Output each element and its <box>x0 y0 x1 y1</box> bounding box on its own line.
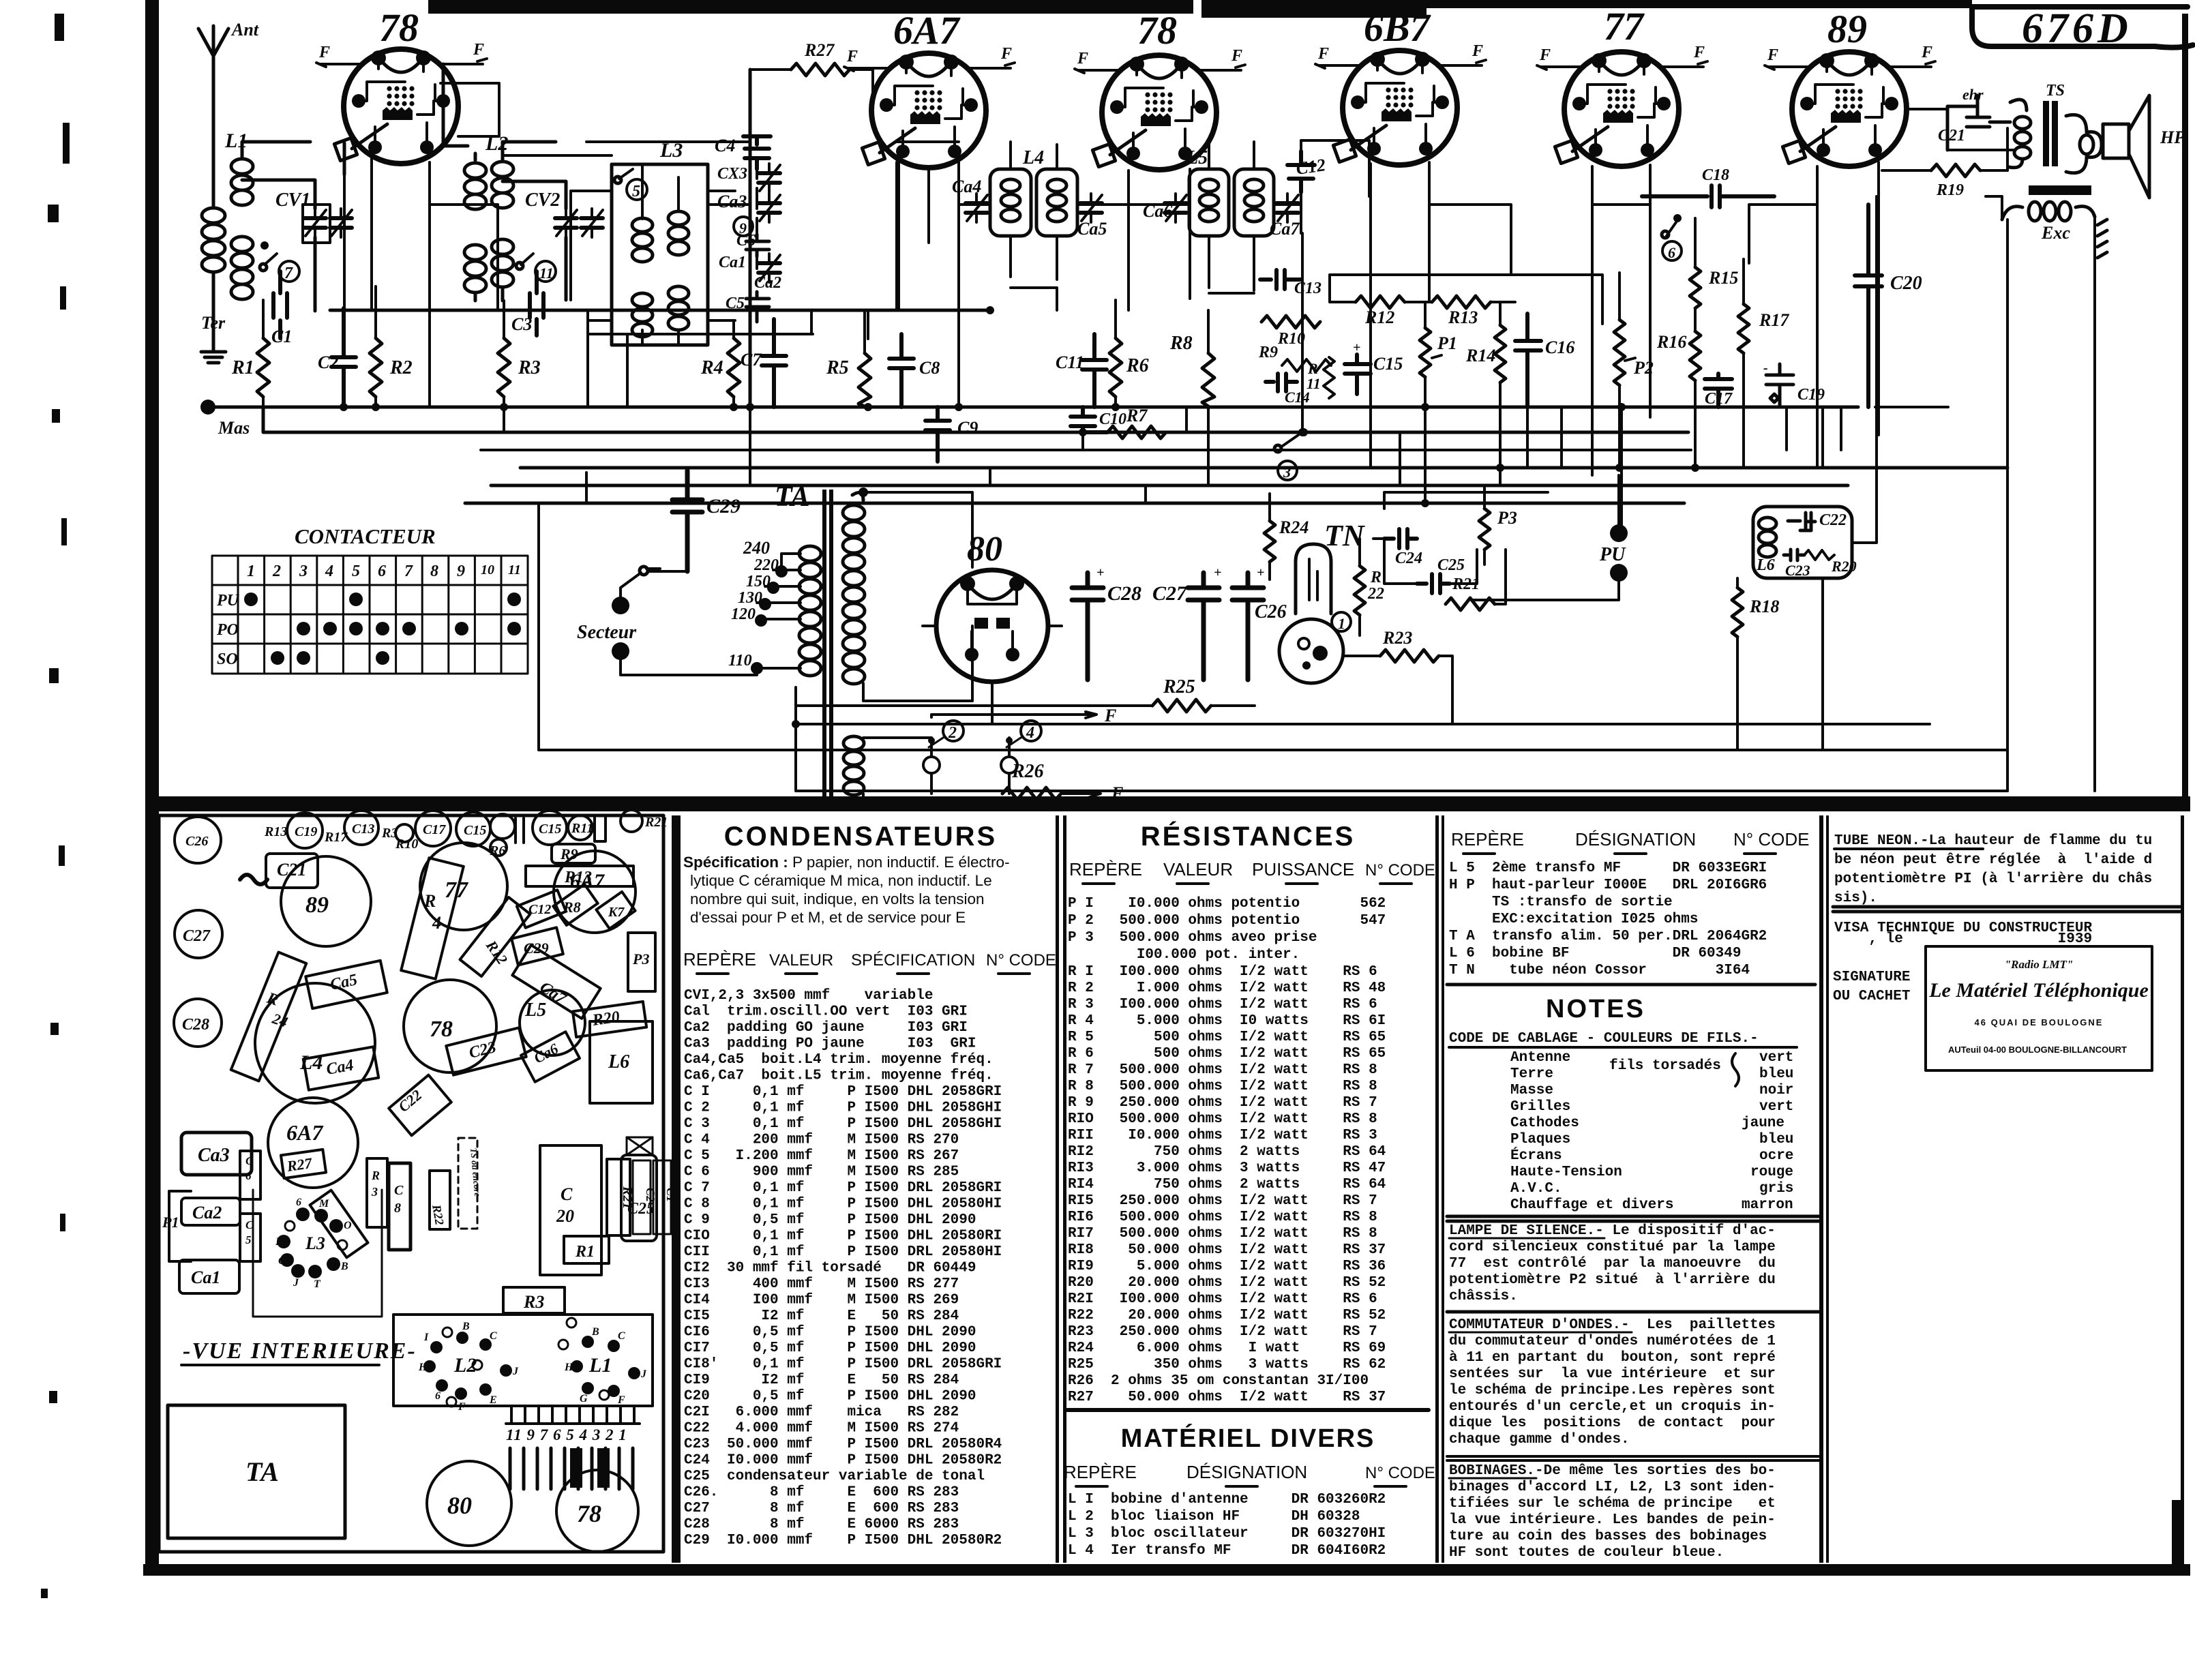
svg-text:L1: L1 <box>588 1354 612 1377</box>
svg-text:REPÈRE: REPÈRE <box>1069 859 1142 880</box>
svg-text:676D: 676D <box>2022 5 2132 52</box>
muting switch lever <box>1281 435 1298 447</box>
capacitor C29 <box>672 470 702 571</box>
rect C21 <box>266 854 318 888</box>
svg-text:R19: R19 <box>1936 181 1964 199</box>
bottom right corner mark <box>2172 1500 2184 1568</box>
svg-text:Ca4: Ca4 <box>325 1056 355 1079</box>
svg-text:TUBE NEON.-La hauteur de flamm: TUBE NEON.-La hauteur de flamme du tu <box>1834 833 2152 849</box>
HP cone box <box>2103 124 2129 158</box>
contacteur row labels <box>216 592 240 668</box>
rect C22 diamond <box>389 1075 451 1136</box>
svg-text:C4: C4 <box>715 136 735 155</box>
svg-text:2: 2 <box>272 562 281 580</box>
svg-text:R25 350 ohms 3 watts: R25 350 ohms 3 watts RS 62 <box>1068 1357 1386 1372</box>
rule <box>1447 1456 1819 1460</box>
svg-text:marron: marron <box>1742 1197 1793 1213</box>
rect R20 <box>573 1002 646 1037</box>
svg-text:R27: R27 <box>804 40 835 60</box>
svg-text:R 8 500.000 ohms I/2 watt: R 8 500.000 ohms I/2 watt RS 8 <box>1068 1079 1377 1094</box>
svg-text:H: H <box>564 1362 573 1373</box>
boxed R3 label <box>503 1287 565 1313</box>
svg-text:VALEUR: VALEUR <box>769 951 833 970</box>
resistor R5 <box>858 353 871 406</box>
svg-text:Cathodes: Cathodes <box>1510 1115 1579 1131</box>
IF can L4 left <box>990 169 1031 236</box>
circle 80 bottom <box>427 1461 511 1546</box>
tube neon paragraph <box>1834 833 2152 906</box>
capacitor C19 electrolytic <box>1766 364 1793 407</box>
svg-text:C: C <box>618 1330 625 1342</box>
notes col header <box>1451 829 1810 850</box>
lower vertical links <box>1622 196 1877 750</box>
capacitor C3 <box>530 271 543 335</box>
svg-text:d'essai pour P et M, et de ser: d'essai pour P et M, et de service pour … <box>690 909 966 926</box>
svg-text:2: 2 <box>948 724 957 742</box>
svg-text:RI5 250.000 ohms I/2 watt: RI5 250.000 ohms I/2 watt RS 7 <box>1068 1193 1377 1209</box>
svg-text:DÉSIGNATION: DÉSIGNATION <box>1186 1462 1307 1482</box>
V1 F leads <box>316 59 487 67</box>
tube V1 78 <box>334 49 458 164</box>
svg-text:T: T <box>314 1278 321 1290</box>
lampe de silence paragraph <box>1449 1223 1776 1304</box>
L4 wires <box>1011 142 1057 280</box>
svg-text:B: B <box>340 1261 348 1272</box>
rect C5 <box>240 1214 260 1261</box>
vertical x1100 lower <box>750 233 1823 503</box>
circled 1 <box>1332 612 1351 631</box>
svg-text:C23: C23 <box>1785 562 1810 579</box>
wire L1 top to grid bus <box>242 142 310 154</box>
top band right segment <box>1201 0 1427 18</box>
rect R9 <box>552 844 595 863</box>
circled 9 <box>734 217 753 236</box>
Exc field coil <box>2002 202 2095 221</box>
resistor R4 <box>728 338 740 397</box>
resistor R3 <box>498 338 510 397</box>
bobinages paragraph <box>1449 1463 1776 1561</box>
svg-text:77: 77 <box>1604 4 1645 48</box>
svg-text:bleu: bleu <box>1759 1066 1793 1082</box>
svg-text:CII 0,1 mf P I500 DRL: CII 0,1 mf P I500 DRL 20580HI <box>684 1244 1002 1260</box>
IF can L5 left <box>1189 169 1229 236</box>
svg-text:Ant: Ant <box>230 20 259 40</box>
V1 grid diamond wire <box>343 143 346 175</box>
capacitor C22 <box>1788 513 1815 530</box>
circle 78 mid <box>404 980 496 1072</box>
svg-text:5: 5 <box>352 562 360 580</box>
svg-text:R8: R8 <box>1169 333 1193 354</box>
svg-text:240: 240 <box>743 538 770 558</box>
svg-text:bleu: bleu <box>1759 1132 1793 1147</box>
svg-text:R22 20.000 ohms I/2 watt: R22 20.000 ohms I/2 watt RS 52 <box>1068 1308 1386 1323</box>
svg-text:J: J <box>293 1277 299 1289</box>
svg-text:RII I0.000 ohms I/2 watt: RII I0.000 ohms I/2 watt RS 3 <box>1068 1128 1377 1143</box>
thick section divider <box>155 796 2190 811</box>
svg-text:3: 3 <box>299 562 308 580</box>
resistances header <box>1069 859 1435 880</box>
L5 wires <box>1209 140 1254 290</box>
potentiometer P1 <box>1420 328 1431 377</box>
neon tube TN bulb <box>1296 544 1331 614</box>
svg-text:P1: P1 <box>162 1214 179 1231</box>
circle C28 <box>174 999 222 1047</box>
wires L3 block to buses <box>571 191 735 407</box>
capacitor C21 out <box>1947 95 2010 150</box>
capacitor C15 electrolytic <box>1345 355 1371 394</box>
svg-text:-: - <box>1763 361 1768 376</box>
P3 frame wires <box>1373 492 1548 604</box>
contacteur table grid <box>212 556 528 674</box>
HV secondary top wire <box>858 487 868 497</box>
column bar cond/resistances <box>1056 815 1059 1563</box>
svg-text:L 2 bloc liaison HF DH 6: L 2 bloc liaison HF DH 60328 <box>1068 1509 1360 1525</box>
TA core <box>822 490 826 796</box>
svg-text:R13: R13 <box>264 824 287 839</box>
svg-text:K7: K7 <box>608 905 625 920</box>
V2 F leads <box>844 63 1015 71</box>
circle L3 with pins <box>277 1207 343 1278</box>
svg-text:CV1: CV1 <box>275 190 310 211</box>
wire V1 top to L2 <box>443 64 468 146</box>
svg-text:R1: R1 <box>231 357 254 378</box>
svg-text:80: 80 <box>447 1492 472 1519</box>
wire mesh mid <box>586 310 1948 503</box>
svg-text:R2: R2 <box>389 357 413 378</box>
CV1 wires <box>242 180 315 311</box>
designation list <box>1449 860 1767 978</box>
svg-text:7: 7 <box>404 562 413 580</box>
rect R1 <box>564 1236 609 1263</box>
svg-text:R 9 250.000 ohms I/2 watt: R 9 250.000 ohms I/2 watt RS 7 <box>1068 1095 1377 1111</box>
svg-text:Ca3: Ca3 <box>717 192 747 211</box>
svg-text:NOTES: NOTES <box>1546 995 1645 1023</box>
svg-text:R5: R5 <box>826 357 849 378</box>
svg-text:REPÈRE: REPÈRE <box>683 949 756 970</box>
svg-text:F: F <box>1231 47 1242 65</box>
svg-text:vert: vert <box>1759 1050 1793 1066</box>
svg-text:I: I <box>423 1332 429 1343</box>
svg-text:C23: C23 <box>467 1038 498 1062</box>
resistor R18 <box>1732 588 1743 637</box>
svg-text:F: F <box>1000 45 1012 63</box>
L3 switch lever <box>619 169 633 179</box>
svg-text:EXC:excitation I025 ohms: EXC:excitation I025 ohms <box>1449 912 1698 927</box>
svg-text:11: 11 <box>539 265 554 282</box>
resistor R22 <box>1354 566 1365 615</box>
svg-text:B: B <box>462 1321 470 1332</box>
svg-text:Spécification : P papier, non: Spécification : P papier, non inductif. … <box>683 854 1010 871</box>
rule under resistances <box>1067 1408 1429 1412</box>
svg-text:RI3 3.000 ohms 3 watts: RI3 3.000 ohms 3 watts RS 47 <box>1068 1160 1386 1176</box>
svg-text:C19: C19 <box>295 824 317 839</box>
potentiometer P2 <box>1614 320 1625 385</box>
rects C2 C1 <box>633 1160 651 1234</box>
svg-text:C17: C17 <box>1705 390 1733 408</box>
capacitor C11 <box>1082 334 1107 407</box>
svg-text:R20 20.000 ohms I/2 watt: R20 20.000 ohms I/2 watt RS 52 <box>1068 1275 1386 1291</box>
rect R24 long diagonal <box>231 952 306 1081</box>
svg-text:C 7 0,1 mf P I500 DRL: C 7 0,1 mf P I500 DRL 2058GRI <box>684 1180 1002 1196</box>
svg-text:R22: R22 <box>430 1203 447 1226</box>
circled 5 <box>627 179 647 200</box>
svg-text:ocre: ocre <box>1759 1148 1793 1164</box>
rect C12 small <box>517 890 566 927</box>
L6 BF choke box <box>1753 507 1852 578</box>
capacitor C10 <box>1071 407 1107 432</box>
TA taps <box>757 554 801 668</box>
R12-R13 top frame wire <box>1330 275 1602 324</box>
svg-text:C20 0,5 mf P I500 DHL: C20 0,5 mf P I500 DHL 2090 <box>684 1389 976 1405</box>
svg-text:4: 4 <box>1026 724 1034 742</box>
svg-text:24: 24 <box>270 1010 290 1031</box>
svg-text:F: F <box>1077 50 1088 67</box>
svg-text:ehr: ehr <box>1962 86 1984 103</box>
filament winding wires <box>863 738 1000 803</box>
svg-text:F: F <box>473 41 484 59</box>
svg-text:80: 80 <box>967 530 1002 569</box>
svg-text:46 QUAI DE BOULOGNE: 46 QUAI DE BOULOGNE <box>1975 1017 2104 1027</box>
rect C23 <box>446 1027 526 1075</box>
page right border <box>2182 14 2188 805</box>
svg-text:"Radio LMT": "Radio LMT" <box>2005 958 2074 971</box>
svg-text:C16: C16 <box>1545 337 1574 357</box>
svg-text:R26: R26 <box>1011 761 1044 782</box>
svg-text:TA: TA <box>775 481 809 513</box>
svg-text:P I I0.000 ohms potentio: P I I0.000 ohms potentio 562 <box>1068 896 1386 912</box>
bus y1062 <box>796 687 1930 724</box>
svg-text:LAMPE DE SILENCE.- Le disposit: LAMPE DE SILENCE.- Le dispositif d'ac- <box>1449 1223 1776 1239</box>
couleur list <box>1510 1050 1793 1213</box>
svg-text:Terre: Terre <box>1510 1066 1553 1082</box>
svg-text:220: 220 <box>753 556 779 574</box>
svg-text:CIO 0,1 mf P I500 DHL: CIO 0,1 mf P I500 DHL 20580RI <box>684 1229 1002 1244</box>
resistor R10 <box>1261 316 1320 328</box>
CV2 wires <box>503 181 566 300</box>
svg-text:dique les positions de conta: dique les positions de contact pour <box>1449 1415 1776 1431</box>
svg-text:SPÉCIFICATION: SPÉCIFICATION <box>851 951 975 970</box>
svg-text:L 4 Ier transfo MF DR 6: L 4 Ier transfo MF DR 604I60R2 <box>1068 1543 1386 1559</box>
svg-text:T A transfo alim. 50 per.DRL: T A transfo alim. 50 per.DRL 2064GR2 <box>1449 929 1767 944</box>
Exc field hatch bar <box>2029 185 2091 195</box>
svg-text:vert: vert <box>1759 1099 1793 1115</box>
svg-text:C27: C27 <box>1152 582 1187 605</box>
svg-text:R6: R6 <box>489 843 505 858</box>
svg-text:C13: C13 <box>1294 280 1322 297</box>
svg-text:L5: L5 <box>524 1000 546 1021</box>
wire mesh upper <box>344 140 1817 310</box>
svg-text:F: F <box>1111 783 1123 803</box>
rect P1 <box>169 1191 191 1261</box>
rect L6 <box>590 1021 653 1103</box>
svg-text:-VUE INTERIEURE-: -VUE INTERIEURE- <box>183 1338 417 1364</box>
svg-text:C24: C24 <box>1395 550 1422 567</box>
svg-text:F: F <box>1472 42 1483 60</box>
rect Ca2 <box>181 1198 240 1225</box>
V2 connections down <box>899 158 959 407</box>
svg-text:78: 78 <box>577 1500 601 1527</box>
switch comb lower teeth <box>510 1448 633 1489</box>
svg-text:R: R <box>423 891 436 911</box>
svg-text:CONDENSATEURS: CONDENSATEURS <box>724 822 998 852</box>
rule <box>1447 1310 1819 1314</box>
heater tap 4 <box>1001 757 1017 773</box>
svg-text:C26: C26 <box>185 834 208 849</box>
contacteur dots <box>244 592 521 665</box>
right column edge <box>2181 815 2184 1564</box>
svg-text:6: 6 <box>296 1197 301 1208</box>
cap C6 <box>746 235 769 256</box>
svg-text:, le I939: , le I939 <box>1834 931 2092 947</box>
svg-text:R13: R13 <box>1448 307 1478 327</box>
svg-text:P 3 500.000 ohms aveo prise: P 3 500.000 ohms aveo prise <box>1068 930 1317 946</box>
long bus y686 <box>520 466 2007 470</box>
long bus under L3 <box>330 309 990 312</box>
wire L2 top <box>503 142 556 157</box>
svg-text:Écrans: Écrans <box>1510 1147 1562 1164</box>
top row small labels <box>185 815 668 858</box>
rect C8 vertical <box>389 1163 410 1250</box>
svg-text:R: R <box>1370 569 1382 586</box>
svg-text:OU CACHET: OU CACHET <box>1833 989 1910 1004</box>
svg-text:L5: L5 <box>1186 147 1208 168</box>
switch lever at 6 <box>1667 222 1676 236</box>
svg-text:SO: SO <box>217 650 238 668</box>
svg-text:L4: L4 <box>1022 147 1044 168</box>
svg-text:F: F <box>275 1236 283 1248</box>
rect C20 big <box>540 1145 601 1275</box>
capacitor C23 + resistor R20 <box>1784 550 1804 560</box>
F arrow top <box>931 712 1096 718</box>
circled 4 <box>1021 721 1041 741</box>
svg-text:130: 130 <box>738 589 762 607</box>
svg-text:R24: R24 <box>1279 517 1309 537</box>
svg-text:+: + <box>1096 565 1104 580</box>
right side vertical wires <box>1986 128 2095 791</box>
svg-text:89: 89 <box>1827 7 1867 51</box>
svg-text:cord silencieux constitué par: cord silencieux constitué par la lampe <box>1449 1240 1776 1255</box>
svg-text:R10: R10 <box>395 837 418 852</box>
svg-text:C 5 I.200 mmf M I500 RS 2: C 5 I.200 mmf M I500 RS 267 <box>684 1148 959 1164</box>
svg-text:noir: noir <box>1759 1083 1793 1098</box>
svg-text:Masse: Masse <box>1510 1083 1553 1098</box>
svg-text:R4: R4 <box>700 357 723 378</box>
svg-text:6: 6 <box>1668 244 1675 261</box>
PU terminals <box>1610 524 1628 542</box>
svg-text:11: 11 <box>508 562 521 577</box>
svg-text:H P haut-parleur I000E DRL: H P haut-parleur I000E DRL 20I6GR6 <box>1449 877 1767 893</box>
svg-text:CX3: CX3 <box>717 165 747 183</box>
resistor R7 <box>1107 426 1166 438</box>
svg-text:C 6 900 mmf M I500 RS 2: C 6 900 mmf M I500 RS 285 <box>684 1165 959 1180</box>
svg-text:RI6 500.000 ohms I/2 watt: RI6 500.000 ohms I/2 watt RS 8 <box>1068 1210 1377 1225</box>
Exc right coil hatch <box>2097 220 2107 258</box>
svg-text:HF sont toutes de couleur bleu: HF sont toutes de couleur bleue. <box>1449 1545 1724 1561</box>
resistor R1 <box>257 338 269 397</box>
svg-text:CI5 I2 mf E 50 RS 2: CI5 I2 mf E 50 RS 284 <box>684 1308 959 1324</box>
svg-text:CI4 I00 mmf M I500 RS 2: CI4 I00 mmf M I500 RS 269 <box>684 1293 959 1308</box>
svg-text:F: F <box>617 1394 625 1406</box>
svg-text:C12: C12 <box>1295 155 1327 179</box>
rect C24 X <box>627 1137 653 1155</box>
capacitor C20 <box>1855 205 1882 407</box>
TN socket circle <box>1279 619 1343 683</box>
svg-text:RI8 50.000 ohms I/2 watt: RI8 50.000 ohms I/2 watt RS 37 <box>1068 1242 1386 1258</box>
svg-text:C15: C15 <box>1373 354 1403 374</box>
rect C29 <box>511 927 563 965</box>
svg-text:Cal trim.oscill.OO vert I03: Cal trim.oscill.OO vert I03 GRI <box>684 1004 968 1020</box>
resistor R25 <box>1152 700 1211 712</box>
resistor R17 <box>1738 304 1749 353</box>
tube V6 89 <box>1782 52 1907 166</box>
svg-text:R12: R12 <box>482 937 511 967</box>
rect R8 rotated <box>553 884 597 925</box>
svg-text:F: F <box>318 44 330 61</box>
svg-text:du commutateur d'ondes numérot: du commutateur d'ondes numérotées de 1 <box>1449 1334 1776 1349</box>
capacitor C27 electrolytic <box>1188 573 1219 680</box>
svg-text:P 2 500.000 ohms potentio: P 2 500.000 ohms potentio 547 <box>1068 913 1386 929</box>
svg-text:C22: C22 <box>1819 511 1847 529</box>
svg-text:B: B <box>591 1326 599 1338</box>
wire to ground <box>212 294 215 350</box>
contacteur header numbers <box>247 562 521 580</box>
svg-text:+: + <box>1214 565 1221 580</box>
C4 cluster vertical wire <box>756 169 758 269</box>
TA primary coil <box>799 546 821 676</box>
svg-text:Ca5: Ca5 <box>329 971 359 994</box>
svg-text:be néon peut être réglée à l: be néon peut être réglée à l'aide d <box>1834 852 2152 868</box>
left margin scan blobs <box>41 14 70 1598</box>
svg-text:C9: C9 <box>957 418 978 438</box>
svg-text:+: + <box>1257 565 1264 580</box>
80 wires <box>923 626 1062 723</box>
svg-text:Le Matériel Téléphonique: Le Matériel Téléphonique <box>1928 979 2149 1002</box>
resistor R19 <box>1931 164 1980 177</box>
capacitor C24 <box>1384 529 1417 548</box>
svg-text:C3: C3 <box>511 314 532 334</box>
svg-text:C: C <box>561 1184 573 1204</box>
svg-text:R25: R25 <box>1163 676 1195 697</box>
svg-text:CI7 0,5 mf P I500 DHL: CI7 0,5 mf P I500 DHL 2090 <box>684 1340 976 1356</box>
L3 internal wires <box>642 164 678 345</box>
trimmer Ca5 <box>1080 194 1102 222</box>
svg-text:RI9 5.000 ohms I/2 watt: RI9 5.000 ohms I/2 watt RS 36 <box>1068 1259 1386 1274</box>
676D tab box <box>1972 7 2193 48</box>
L3 oscillator block box <box>612 164 708 345</box>
capacitor C13 <box>1260 270 1301 289</box>
svg-text:TS :transfo de sortie: TS :transfo de sortie <box>1449 895 1673 910</box>
coil L2 secondary <box>492 157 513 301</box>
svg-text:F: F <box>1921 44 1932 61</box>
rect Ca5 <box>305 961 387 1008</box>
resistor R12 <box>1356 296 1405 308</box>
wire R27 left down <box>749 70 752 409</box>
svg-text:C 2 0,1 mf P I500 DHL: C 2 0,1 mf P I500 DHL 2058GHI <box>684 1100 1002 1116</box>
svg-text:Grilles: Grilles <box>1510 1099 1570 1115</box>
L6 coil <box>1759 517 1776 557</box>
svg-text:Ca5: Ca5 <box>1077 219 1107 239</box>
svg-text:5: 5 <box>632 183 640 200</box>
svg-text:CI9 I2 mf E 50 RS 2: CI9 I2 mf E 50 RS 284 <box>684 1372 959 1388</box>
svg-text:Antenne: Antenne <box>1510 1050 1570 1066</box>
svg-text:C2: C2 <box>318 352 338 372</box>
rectifier tube 80 <box>936 570 1048 682</box>
junction dot L1 <box>260 241 269 250</box>
svg-text:F: F <box>846 48 858 65</box>
svg-text:R1: R1 <box>575 1243 595 1261</box>
svg-text:C29 I0.000 mmf P I500 DHL: C29 I0.000 mmf P I500 DHL 20580R2 <box>684 1533 1002 1548</box>
resistor R6 <box>1109 338 1122 397</box>
